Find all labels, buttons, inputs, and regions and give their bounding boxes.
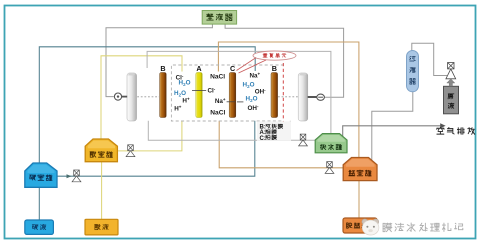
- membrane A (anion): [196, 73, 202, 118]
- label alkali liquid: [32, 224, 46, 229]
- label electrode water tank: [320, 144, 341, 150]
- watermark logo: [362, 219, 368, 225]
- air vent arrowhead: [440, 123, 445, 128]
- red dashed repeat-unit boundary: [282, 63, 284, 123]
- wire alkali feed loop: stack top to alkali tank: [39, 47, 255, 164]
- wire air vent line from electrode water tank: [343, 126, 441, 137]
- label salt chamber tank: [349, 170, 372, 176]
- legend background: [257, 121, 291, 141]
- svg-text:B: B: [272, 64, 277, 73]
- salt chamber tank: [343, 158, 377, 181]
- left electrode: [127, 73, 137, 121]
- wire acid drain: stack bottom to acid tank right: [118, 121, 182, 151]
- dashed stack boundary box: [171, 65, 284, 121]
- acid liquid box: [85, 219, 118, 235]
- wire alkali drain: stack bottom to alkali tank right: [58, 121, 255, 176]
- acid chamber tank: [85, 139, 117, 162]
- wire salt tank to filter bottom: [372, 92, 413, 160]
- cathode terminal circle: [114, 93, 121, 100]
- electrode water tank: [315, 134, 347, 153]
- svg-text:C: C: [230, 64, 235, 73]
- alkali chamber tank: [25, 163, 57, 187]
- rectifier box: [202, 11, 236, 25]
- anode terminal circle: [317, 94, 325, 100]
- label desalted liquid: [347, 223, 368, 229]
- arrow raw liquid to valve: [447, 79, 455, 86]
- watermark text: [383, 223, 463, 232]
- label alkali chamber tank: [30, 175, 53, 181]
- wire filter top to raw liquid valve: [412, 43, 447, 75]
- valve on acid drain line: [126, 145, 135, 157]
- wire acid feed loop: stack top to acid tank: [101, 56, 182, 140]
- wire rectifier to left electrode (cathode): [106, 24, 212, 97]
- svg-text:B: B: [160, 64, 165, 73]
- right electrode: [298, 73, 308, 121]
- label repeat unit: [263, 53, 286, 57]
- svg-text:C:: C:: [260, 136, 266, 142]
- label acid chamber tank: [90, 151, 113, 157]
- wire salt tank to desalted liquid box: [358, 181, 360, 219]
- label rectifier: [207, 14, 232, 21]
- wire right electrode compartment drain branch: [289, 121, 291, 141]
- label acid liquid: [95, 224, 109, 229]
- valve before salt chamber tank: [325, 162, 334, 174]
- wire salt drain: stack bottom to salt tank left: [219, 121, 344, 168]
- wire alkali tank to alkali liquid box: [38, 187, 40, 221]
- membrane B2 (bipolar): [271, 73, 278, 118]
- label filter: [410, 56, 416, 61]
- raw liquid box: [444, 86, 459, 114]
- svg-text:NaCl: NaCl: [210, 74, 225, 81]
- valve above raw liquid box: [446, 63, 456, 79]
- membrane C (cation): [229, 73, 236, 118]
- dashed continuation left of B1: [137, 96, 159, 98]
- svg-text:NaCl: NaCl: [210, 109, 225, 116]
- wire rectifier to right electrode (anode): [225, 24, 344, 97]
- alkali liquid box: [25, 220, 54, 234]
- wire electrode rinse drain to electrode water tank valve: [148, 121, 315, 141]
- wire acid tank to acid liquid box: [101, 162, 103, 220]
- svg-text:A: A: [196, 64, 201, 73]
- label air discharge: [437, 127, 475, 134]
- desalted liquid box: [343, 218, 377, 233]
- arrow on alkali drain line: [67, 174, 72, 178]
- label raw liquid: [448, 94, 454, 99]
- valve on alkali drain line: [72, 170, 81, 182]
- repeat unit callout ellipse: [253, 51, 296, 60]
- wire electrode rinse loop: stack top to electrode water tank: [147, 51, 331, 134]
- dashed continuation right of B2: [278, 96, 298, 98]
- filter vessel: [407, 51, 419, 92]
- wire salt feed loop: stack top to salt tank: [218, 42, 359, 159]
- membrane B1 (bipolar): [160, 73, 167, 118]
- valve before electrode water tank: [299, 134, 308, 146]
